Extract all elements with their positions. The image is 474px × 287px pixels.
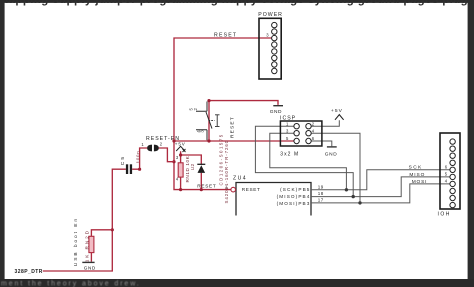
svg-text:RESET: RESET	[242, 187, 261, 192]
diode D1	[197, 164, 205, 173]
IOH pad 3	[450, 188, 455, 193]
resistor RN2D body	[89, 236, 94, 252]
ground at switch	[270, 106, 283, 115]
svg-text:S42031-160R-TR-7260: S42031-160R-TR-7260	[224, 140, 229, 204]
svg-text:1K RN2D: 1K RN2D	[85, 229, 90, 262]
ICSP pad 3	[294, 131, 299, 136]
svg-text:RESET: RESET	[214, 32, 237, 38]
svg-text:+5V: +5V	[331, 108, 343, 114]
svg-text:USB boot En: USB boot En	[73, 217, 79, 266]
junction dot diode bottom	[200, 188, 203, 191]
capacitor C4 polarized plates	[147, 145, 159, 152]
right page edge bar	[468, 0, 474, 287]
svg-text:ZU4: ZU4	[233, 176, 247, 182]
junction dot at switch top	[207, 99, 210, 102]
svg-text:(MISO)PB4: (MISO)PB4	[277, 194, 311, 199]
svg-text:18: 18	[318, 191, 324, 196]
IOH pad 9	[450, 146, 455, 151]
svg-text:19: 19	[318, 184, 324, 189]
IOH pad 10	[450, 139, 455, 144]
junction dot RESET/C4	[172, 160, 175, 163]
junction dot DTR/RN2D	[111, 228, 114, 231]
connector POWER box	[259, 18, 281, 79]
svg-text:mapping supply jumper programm: mapping supply jumper programming happy …	[0, 0, 474, 6]
IOH pad 2	[450, 195, 455, 200]
svg-text:RESET: RESET	[229, 116, 235, 138]
wire MISO: ZU4 pin18 to IOH pin5	[311, 177, 450, 197]
svg-text:CD1206-S01575: CD1206-S01575	[219, 133, 224, 185]
resistor RN1D body	[178, 163, 183, 177]
svg-text:POWER: POWER	[258, 12, 283, 18]
junction dot RESET/RESET-EN	[172, 139, 175, 142]
POWER pad 3	[272, 35, 277, 40]
junction dot C5/C4	[138, 168, 141, 171]
wire ICSP pin2 to +5V	[311, 120, 339, 126]
wire 328P_DTR to C5	[43, 169, 126, 271]
junction dot at switch bottom	[207, 139, 210, 142]
IOH pad 4	[450, 181, 455, 186]
svg-text:RESET: RESET	[197, 184, 216, 189]
wire RESET-EN rail to ICSP pin5	[174, 140, 294, 142]
svg-text:GND: GND	[84, 266, 96, 271]
ICSP pad 2	[306, 124, 311, 129]
svg-text:17: 17	[318, 198, 324, 203]
op IC ZU4 box	[236, 183, 311, 216]
POWER pad 1	[272, 22, 277, 27]
bottom page bar	[0, 279, 474, 287]
POWER pad 2	[272, 29, 277, 34]
svg-text:GND: GND	[325, 151, 337, 157]
svg-text:SCK: SCK	[409, 165, 423, 171]
junction dot SCK	[345, 188, 348, 191]
wire ICSP pin6 to GND	[311, 141, 332, 146]
ground at ICSP pin6	[325, 147, 337, 158]
switch S1 contacts	[196, 102, 220, 141]
svg-text:U2: U2	[190, 164, 195, 171]
power +5V pullup arrow	[175, 142, 186, 152]
svg-text:C5: C5	[120, 155, 126, 165]
wire RN2D branch	[91, 230, 112, 262]
junction dot RN1D bottom	[179, 188, 182, 191]
ICSP pad 4	[306, 131, 311, 136]
svg-text:(SCK)PB5: (SCK)PB5	[280, 187, 310, 192]
IOH pad 6	[450, 167, 455, 172]
IOH pad 8	[450, 153, 455, 158]
capacitor C5	[126, 164, 132, 174]
power +5V at ICSP	[331, 108, 344, 120]
ICSP pad 1	[294, 124, 299, 129]
junction dot MISO	[352, 195, 355, 198]
POWER pad 7	[272, 62, 277, 67]
svg-text:328P_DTR: 328P_DTR	[15, 269, 43, 275]
ground under RN2D	[82, 262, 96, 270]
inversion bubble at ZU4 RESET pin	[231, 187, 236, 192]
wire RESET net: POWER pin3 to ZU4 RESET pin	[174, 38, 272, 190]
wire SCK: ZU4 pin19 to IOH pin6	[311, 170, 450, 190]
svg-text:IOH: IOH	[438, 212, 451, 218]
svg-text:MOSI: MOSI	[412, 179, 428, 185]
wire ICSP pin3 SCK route	[270, 133, 347, 190]
svg-text:(MOSI)PB3: (MOSI)PB3	[277, 201, 311, 206]
left page edge bar	[0, 0, 5, 287]
POWER pad 4	[272, 42, 277, 47]
POWER pad 6	[272, 55, 277, 60]
connector ICSP box	[280, 121, 322, 146]
wire switch to GND branch	[209, 101, 278, 141]
IOH pad 5	[450, 174, 455, 179]
junction dot MOSI	[358, 201, 361, 204]
svg-text:+5V: +5V	[175, 142, 186, 147]
ICSP pad 5	[294, 138, 299, 143]
svg-text:ment the theory above drew.: ment the theory above drew.	[1, 280, 141, 287]
wire C5 to C4 loop	[132, 148, 174, 169]
svg-text:3x2 M: 3x2 M	[280, 151, 299, 157]
wire MOSI: ZU4 pin17 to IOH pin4	[311, 184, 450, 203]
wire ICSP pin4 MOSI route	[311, 133, 360, 203]
svg-text:MISO: MISO	[409, 172, 425, 178]
POWER pad 5	[272, 49, 277, 54]
junction dot +5V node	[179, 153, 182, 156]
wire ICSP pin1 MISO route	[255, 126, 353, 196]
top cropped text line	[0, 0, 474, 6]
wire +5V to pullup and diode	[181, 151, 202, 189]
IOH pad 7	[450, 160, 455, 165]
IOH pad 1	[450, 202, 455, 207]
svg-text:GND: GND	[270, 109, 282, 115]
POWER pad 8	[272, 68, 277, 73]
connector IOH box	[440, 133, 460, 209]
ICSP pad 6	[306, 138, 311, 143]
